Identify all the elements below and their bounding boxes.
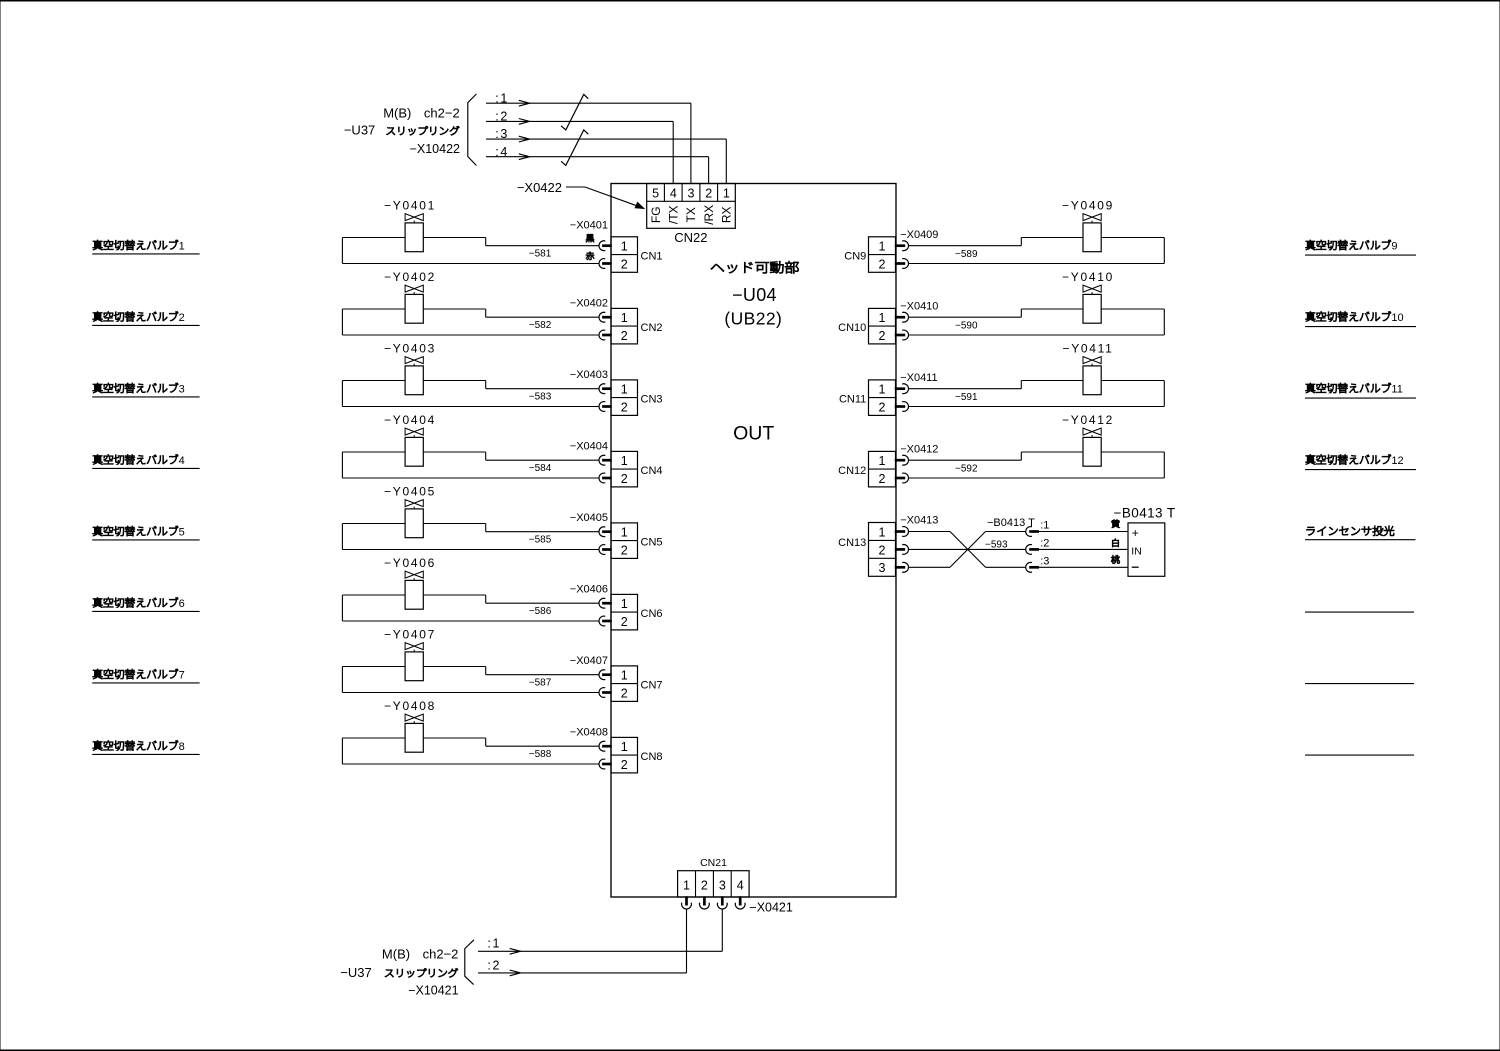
connector CN13 [838, 523, 908, 577]
label X0422 with leader arrow [517, 180, 644, 209]
svg-text:(UB22): (UB22) [724, 309, 782, 329]
svg-text:−581: −581 [529, 248, 552, 259]
svg-text:−592: −592 [955, 464, 978, 475]
svg-text:−Y0409: −Y0409 [1062, 198, 1114, 212]
valve Y0404 [384, 413, 436, 466]
svg-text:1: 1 [879, 240, 886, 254]
valve Y0402 [384, 270, 436, 323]
svg-text:11: 11 [1391, 383, 1402, 395]
valve Y0407 [384, 627, 436, 680]
svg-text:/TX: /TX [667, 205, 681, 224]
svg-text:−593: −593 [985, 539, 1008, 550]
svg-text:M(B): M(B) [382, 946, 410, 961]
connector CN2 [599, 308, 663, 344]
row label 真空切替えバルブ11 [1305, 383, 1416, 398]
svg-text:1: 1 [879, 454, 886, 468]
svg-text:1: 1 [683, 878, 690, 892]
row label 真空切替えバルブ7 [92, 669, 199, 683]
svg-text:−591: −591 [955, 392, 978, 403]
svg-text:−587: −587 [529, 677, 552, 688]
label X0403 [570, 369, 608, 381]
svg-text:M(B): M(B) [383, 106, 411, 121]
svg-text:−X0408: −X0408 [570, 726, 608, 738]
svg-text:−Y0407: −Y0407 [384, 627, 436, 641]
svg-text:−Y0406: −Y0406 [384, 556, 436, 570]
wire X10422:3 [486, 127, 726, 183]
svg-text:CN21: CN21 [700, 857, 727, 869]
svg-text:1: 1 [879, 525, 886, 539]
row label 真空切替えバルブ4 [92, 454, 199, 468]
wire 589 loop [909, 238, 1165, 264]
svg-text:4: 4 [670, 187, 677, 201]
svg-text:CN11: CN11 [839, 394, 866, 406]
svg-text:2: 2 [621, 257, 628, 271]
svg-text:3: 3 [179, 383, 185, 395]
svg-text::3: :3 [495, 127, 509, 141]
svg-text:1: 1 [621, 311, 628, 325]
svg-text::4: :4 [495, 145, 509, 159]
svg-text:−U04: −U04 [732, 285, 777, 305]
svg-text:CN9: CN9 [844, 251, 866, 263]
valve Y0401 [384, 198, 436, 251]
connector CN12 [838, 451, 908, 487]
row label 真空切替えバルブ12 [1305, 454, 1416, 469]
label X0401 [570, 219, 608, 231]
label X0410 [900, 300, 938, 312]
connector CN5 [599, 523, 663, 559]
block title ヘッド可動部 [711, 261, 799, 273]
wire 586 loop [342, 595, 599, 621]
row label 真空切替えバルブ1 [92, 240, 199, 254]
row label 真空切替えバルブ3 [92, 383, 199, 397]
wire 591 loop [909, 381, 1165, 407]
svg-text:OUT: OUT [733, 422, 774, 444]
label X0408 [570, 726, 608, 738]
sensor B0413 T block [1114, 506, 1176, 577]
label X0413 [900, 515, 938, 527]
wire 583 loop [342, 381, 599, 407]
svg-text:2: 2 [879, 329, 886, 343]
connector CN7 [599, 666, 663, 702]
label X0406 [570, 583, 608, 595]
svg-text:−U37: −U37 [340, 965, 371, 980]
valve Y0403 [384, 341, 436, 394]
svg-text:−X0413: −X0413 [900, 515, 938, 527]
svg-text:−Y0404: −Y0404 [384, 413, 436, 427]
svg-text:−X0412: −X0412 [900, 443, 938, 455]
label X0402 [570, 297, 608, 309]
wire 588 loop [342, 738, 599, 764]
wire 584 loop [342, 452, 599, 478]
row label 真空切替えバルブ9 [1305, 240, 1416, 255]
svg-text::2: :2 [495, 110, 509, 124]
svg-text:2: 2 [179, 312, 185, 324]
svg-text:2: 2 [621, 615, 628, 629]
cable group mark top pair [561, 94, 588, 129]
valve Y0411 [1062, 341, 1113, 394]
svg-text::2: :2 [487, 958, 501, 972]
svg-text:4: 4 [179, 455, 185, 467]
svg-text:3: 3 [688, 187, 695, 201]
svg-text:12: 12 [1391, 455, 1403, 467]
wire 590 loop [909, 309, 1165, 335]
svg-text:CN12: CN12 [838, 465, 866, 477]
svg-text:−X0409: −X0409 [900, 229, 938, 241]
svg-text:−584: −584 [529, 463, 552, 474]
svg-text:−X0410: −X0410 [900, 300, 938, 312]
row label 真空切替えバルブ5 [92, 526, 199, 540]
label X0404 [570, 440, 608, 452]
label UB22 [724, 309, 782, 329]
svg-text:ch2−2: ch2−2 [424, 106, 460, 121]
svg-text:−590: −590 [955, 321, 978, 332]
svg-text:−Y0412: −Y0412 [1062, 413, 1114, 427]
connector CN11 [839, 380, 908, 416]
connector CN6 [599, 594, 663, 630]
svg-text:2: 2 [705, 187, 712, 201]
connector CN22 [647, 184, 736, 246]
svg-text:3: 3 [719, 878, 726, 892]
label X0407 [570, 655, 608, 667]
svg-text:−Y0408: −Y0408 [384, 699, 436, 713]
svg-text:−Y0402: −Y0402 [384, 270, 436, 284]
connector CN9 [844, 237, 908, 272]
svg-text:ch2−2: ch2−2 [423, 946, 459, 961]
svg-text:1: 1 [621, 597, 628, 611]
svg-text:−X10421: −X10421 [408, 984, 458, 998]
external cable labels M(B) ch2-2 / U37 slip ring / X10421 [340, 940, 474, 998]
wire X10421:2 [478, 909, 687, 975]
svg-text:9: 9 [1391, 240, 1397, 252]
wire X10422:2 [486, 110, 673, 184]
svg-text:−583: −583 [529, 391, 552, 402]
svg-text:2: 2 [621, 329, 628, 343]
valve Y0408 [384, 699, 436, 752]
spare row underlines [1305, 612, 1414, 755]
svg-text:CN6: CN6 [641, 608, 663, 620]
svg-text:2: 2 [621, 543, 628, 557]
row label 真空切替えバルブ6 [92, 597, 199, 611]
valve Y0405 [384, 484, 436, 537]
wire 585 loop [342, 524, 599, 550]
svg-text:−X0411: −X0411 [900, 372, 937, 384]
connector CN3 [599, 380, 663, 416]
svg-text:CN4: CN4 [641, 465, 663, 477]
svg-text:/RX: /RX [702, 205, 716, 225]
svg-text:−X0421: −X0421 [749, 900, 792, 914]
svg-text:−Y0411: −Y0411 [1062, 341, 1113, 355]
row label 真空切替えバルブ2 [92, 311, 199, 325]
svg-text:−X0401: −X0401 [570, 219, 608, 231]
svg-text:−B0413 T: −B0413 T [1114, 506, 1176, 521]
svg-text:−X0403: −X0403 [570, 369, 608, 381]
label X0421 [749, 900, 792, 914]
svg-text:1: 1 [621, 669, 628, 683]
label X0409 [900, 229, 938, 241]
svg-text::1: :1 [487, 937, 501, 951]
svg-text::2: :2 [1040, 538, 1049, 550]
wire color labels 黒 赤 [586, 234, 594, 260]
svg-text:+: + [1132, 526, 1139, 540]
external cable labels M(B) ch2-2 / U37 slip ring / X10422 [344, 94, 477, 166]
svg-text:−Y0401: −Y0401 [384, 198, 436, 212]
svg-text:−589: −589 [955, 249, 978, 260]
valve Y0412 [1062, 413, 1114, 466]
svg-text:5: 5 [652, 187, 659, 201]
row label 真空切替えバルブ8 [92, 740, 199, 754]
connector CN4 [599, 451, 663, 487]
svg-text:7: 7 [179, 669, 185, 681]
wire 587 loop [342, 667, 599, 693]
label X0405 [570, 512, 608, 524]
svg-text:2: 2 [621, 686, 628, 700]
svg-text:2: 2 [879, 400, 886, 414]
cable group mark bottom pair [561, 130, 588, 166]
svg-text:CN7: CN7 [641, 680, 663, 692]
wire 593 crossover [909, 532, 1026, 568]
svg-text:−X0402: −X0402 [570, 297, 608, 309]
connector CN1 [599, 237, 663, 272]
wire X10421:1 [478, 909, 722, 954]
wire 592 loop [909, 452, 1165, 478]
row label ラインセンサ投光 [1305, 526, 1416, 540]
row label 真空切替えバルブ10 [1305, 311, 1416, 326]
svg-text:CN22: CN22 [674, 230, 707, 245]
svg-text:−586: −586 [529, 606, 552, 617]
valve Y0406 [384, 556, 436, 609]
svg-text:CN10: CN10 [838, 322, 866, 334]
svg-text:1: 1 [879, 311, 886, 325]
svg-text:CN13: CN13 [838, 537, 866, 549]
svg-text:2: 2 [879, 472, 886, 486]
svg-text:1: 1 [723, 187, 730, 201]
label X0412 [900, 443, 938, 455]
svg-text:6: 6 [179, 598, 185, 610]
svg-text:10: 10 [1391, 312, 1403, 324]
svg-text::1: :1 [1040, 520, 1049, 532]
svg-text:2: 2 [621, 472, 628, 486]
svg-text:−U37: −U37 [344, 123, 375, 138]
svg-text:8: 8 [179, 741, 185, 753]
connector CN10 [838, 308, 908, 344]
connector B0413 T plug contacts :1 :2 :3 [987, 517, 1128, 572]
svg-text::1: :1 [495, 91, 509, 105]
svg-text:3: 3 [879, 561, 886, 575]
svg-text:CN3: CN3 [641, 394, 663, 406]
svg-text:1: 1 [621, 526, 628, 540]
enclosure U04 head unit block [611, 184, 896, 898]
svg-text:−Y0403: −Y0403 [384, 341, 436, 355]
label OUT [733, 422, 774, 444]
wire 582 loop [342, 309, 599, 335]
connector CN21 [678, 857, 750, 909]
svg-text:4: 4 [737, 878, 744, 892]
wire X10422:1 [486, 91, 691, 183]
svg-text:CN2: CN2 [641, 322, 663, 334]
svg-text:1: 1 [621, 454, 628, 468]
svg-text:−585: −585 [529, 534, 552, 545]
svg-text:CN8: CN8 [641, 751, 663, 763]
svg-text:−588: −588 [529, 749, 552, 760]
svg-text:5: 5 [179, 526, 185, 538]
svg-text:FG: FG [649, 206, 663, 223]
svg-text:−X0404: −X0404 [570, 440, 608, 452]
svg-text:−X0405: −X0405 [570, 512, 608, 524]
svg-text:1: 1 [621, 740, 628, 754]
svg-text:1: 1 [621, 383, 628, 397]
svg-text::3: :3 [1040, 555, 1049, 567]
svg-text:−582: −582 [529, 320, 552, 331]
valve Y0410 [1062, 270, 1114, 323]
svg-text:RX: RX [720, 206, 734, 223]
svg-text:−Y0410: −Y0410 [1062, 270, 1114, 284]
label X0411 [900, 372, 937, 384]
svg-text:−X0406: −X0406 [570, 583, 608, 595]
valve Y0409 [1062, 198, 1114, 251]
svg-text:2: 2 [879, 257, 886, 271]
label U04 [732, 285, 777, 305]
svg-text:IN: IN [1131, 546, 1142, 558]
svg-text:TX: TX [684, 207, 698, 222]
wire color labels 黄 白 桃 [1111, 520, 1119, 564]
svg-text:−X0422: −X0422 [517, 180, 562, 195]
wire X10422:4 [486, 145, 709, 184]
svg-text:2: 2 [701, 878, 708, 892]
svg-text:CN5: CN5 [641, 537, 663, 549]
svg-text:1: 1 [179, 240, 185, 252]
svg-text:2: 2 [621, 758, 628, 772]
connector CN8 [599, 737, 663, 773]
svg-text:2: 2 [879, 543, 886, 557]
svg-text:−X0407: −X0407 [570, 655, 608, 667]
svg-text:−X10422: −X10422 [410, 142, 460, 156]
svg-text:−Y0405: −Y0405 [384, 484, 436, 498]
svg-text:1: 1 [879, 383, 886, 397]
svg-text:2: 2 [621, 400, 628, 414]
svg-text:1: 1 [621, 240, 628, 254]
wire 581 loop [342, 238, 599, 264]
svg-text:CN1: CN1 [641, 251, 663, 263]
